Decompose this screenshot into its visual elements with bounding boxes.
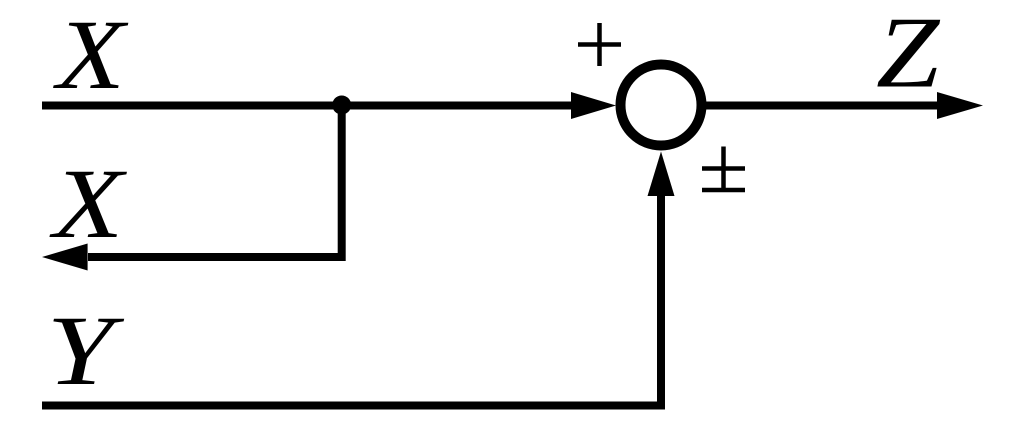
wire branch down from junction [88, 105, 342, 257]
svg-text:Y: Y [47, 295, 125, 406]
plus-minus sign at summing junction [702, 147, 745, 191]
svg-text:X: X [52, 0, 129, 110]
arrowhead output Z (right-pointing) [937, 92, 983, 119]
arrowhead into summing junction (up-pointing) [648, 152, 675, 197]
arrowhead X branch (left-pointing) [42, 244, 88, 271]
summing junction circle U1 [621, 65, 702, 146]
wire top input line [42, 102, 580, 110]
svg-text:Z: Z [876, 0, 941, 109]
wire output line [706, 102, 940, 110]
arrowhead into summing junction (right-pointing) [571, 92, 616, 119]
plus sign at summing junction [578, 23, 621, 66]
wire Y input line with corner up to summing junction [42, 180, 661, 406]
junction dot [332, 96, 351, 115]
svg-text:X: X [49, 148, 128, 259]
